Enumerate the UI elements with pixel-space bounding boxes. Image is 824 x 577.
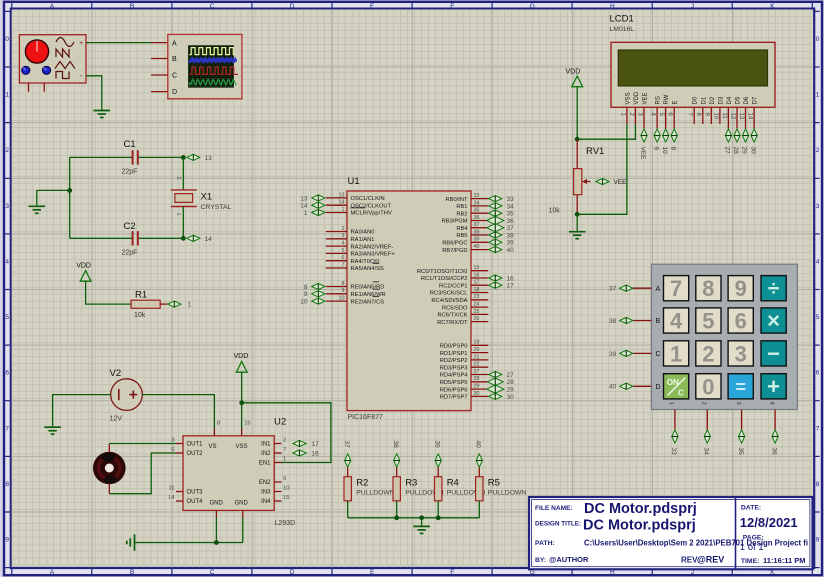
U1 pin 29 RD6/PSP6 [440, 384, 489, 394]
U1 pin 40 RB7/PGD [442, 244, 488, 254]
svg-text:8: 8 [217, 421, 220, 427]
svg-text:RC1/T1OSI/CCP2: RC1/T1OSI/CCP2 [421, 276, 468, 282]
terminal 1 [168, 301, 181, 307]
svg-text:RB4: RB4 [456, 226, 468, 232]
svg-text:EN2: EN2 [259, 480, 271, 486]
svg-text:D: D [290, 569, 295, 576]
svg-text:7: 7 [5, 425, 9, 432]
svg-text:C: C [210, 569, 215, 576]
U1 pin 26 RC7/RX/DT [437, 316, 488, 326]
svg-text:C: C [678, 389, 684, 398]
LCD pin 10 D3 [712, 96, 724, 124]
svg-text:6: 6 [816, 370, 820, 377]
U1 pin 36 RB3/PGM [442, 215, 489, 225]
keypad button + [761, 374, 786, 399]
terminal 16 [293, 450, 319, 458]
ground [413, 518, 430, 534]
terminal 9 [304, 291, 325, 299]
svg-text:GND: GND [235, 501, 249, 507]
U1 pin 5 RA3/AN3/VREF+ [326, 248, 396, 258]
terminal 16 [489, 275, 514, 283]
svg-text:RV1: RV1 [586, 146, 604, 157]
svg-text:6: 6 [171, 447, 174, 453]
terminal 36 [487, 216, 514, 224]
keypad panel [652, 264, 798, 409]
svg-text:D: D [172, 89, 177, 96]
U1 pin 39 RB6/PGC [442, 237, 488, 247]
node junction [575, 137, 580, 142]
svg-text:38: 38 [609, 318, 617, 325]
U2 pin 6 OUT2 [171, 447, 203, 457]
keypad button 9 [728, 276, 753, 302]
LCD pin 1 VSS [619, 92, 631, 124]
svg-text:10: 10 [661, 147, 668, 155]
svg-text:2: 2 [701, 402, 707, 405]
terminal 37 [487, 224, 514, 232]
U1 pin 21 RD2/PSP2 [440, 354, 489, 364]
svg-text:4: 4 [816, 258, 820, 265]
U1 pin 20 RD1/PSP1 [440, 347, 489, 357]
svg-text:VDD: VDD [566, 69, 581, 76]
ground [29, 190, 46, 213]
wire [633, 320, 651, 322]
svg-text:29: 29 [741, 147, 748, 155]
terminal VEE [596, 178, 627, 186]
svg-text:RD1/PSP1: RD1/PSP1 [440, 351, 468, 357]
svg-text:×: × [767, 308, 780, 333]
terminal 27 [724, 124, 732, 154]
svg-text:RC4/SDI/SDA: RC4/SDI/SDA [431, 298, 467, 304]
wire [139, 156, 184, 158]
svg-text:10k: 10k [134, 312, 146, 319]
terminal 30 [489, 393, 514, 401]
svg-text:EN1: EN1 [259, 461, 271, 467]
svg-text:DC Motor.pdsprj: DC Motor.pdsprj [584, 501, 697, 517]
svg-text:11:16:11 PM: 11:16:11 PM [763, 556, 806, 565]
svg-text:16: 16 [474, 272, 480, 278]
wire [241, 403, 243, 429]
wire [70, 156, 132, 158]
LCD pin 3 VEE [636, 92, 648, 124]
svg-text:40: 40 [474, 244, 480, 250]
terminal 38 [392, 441, 400, 468]
svg-text:A: A [656, 286, 661, 293]
svg-text:14: 14 [339, 200, 345, 206]
svg-text:1: 1 [283, 457, 286, 463]
svg-text:RD4/PSP4: RD4/PSP4 [440, 373, 469, 379]
svg-text:C: C [210, 3, 215, 10]
power VDD [234, 353, 249, 372]
svg-text:VDD: VDD [76, 263, 91, 270]
svg-text:1: 1 [670, 341, 682, 366]
svg-text:OSC1/CLKIN: OSC1/CLKIN [351, 196, 385, 202]
svg-text:RC5/SDO: RC5/SDO [442, 305, 468, 311]
wire [142, 395, 214, 429]
wire LCD VSS to ground rail [577, 124, 627, 214]
svg-text:25: 25 [474, 309, 480, 315]
svg-text:BY:: BY: [535, 557, 546, 564]
svg-text:19: 19 [474, 340, 480, 346]
U2 pin 16 VSS stub [241, 429, 243, 436]
svg-text:2: 2 [702, 341, 714, 366]
svg-text:28: 28 [474, 376, 480, 382]
terminal 10 [300, 298, 325, 306]
svg-text:1: 1 [304, 210, 308, 217]
terminal 37 [343, 441, 351, 468]
node junction [419, 515, 424, 520]
terminal 27 [489, 371, 514, 379]
svg-text:PATH:: PATH: [535, 540, 555, 547]
svg-text:34: 34 [507, 203, 515, 210]
keypad button 7 [664, 276, 689, 302]
svg-text:RE0/AN5/RD: RE0/AN5/RD [351, 285, 385, 291]
svg-text:B: B [130, 3, 134, 10]
wire [576, 214, 578, 229]
keypad button 4 [664, 308, 689, 334]
power VDD [76, 263, 91, 282]
U1 pin 34 RB1 [456, 200, 488, 210]
svg-text:RE2/AN7/CS: RE2/AN7/CS [351, 299, 385, 305]
svg-text:÷: ÷ [768, 278, 780, 301]
wire VDD to EN1 [242, 403, 331, 463]
svg-text:RD6/PSP6: RD6/PSP6 [440, 387, 468, 393]
svg-text:A: A [50, 569, 55, 576]
svg-text:R2: R2 [356, 478, 368, 489]
keypad button 5 [696, 308, 721, 334]
svg-text:VDD: VDD [634, 91, 640, 104]
svg-text:8: 8 [5, 481, 9, 488]
svg-text:E: E [370, 3, 375, 10]
svg-text:D: D [656, 384, 661, 391]
svg-text:16: 16 [507, 275, 515, 282]
wire [242, 518, 244, 543]
svg-text:RE1/AN6/WR: RE1/AN6/WR [351, 292, 386, 298]
svg-text:5: 5 [816, 314, 820, 321]
svg-text:B: B [656, 318, 661, 325]
terminal 37 [609, 285, 633, 293]
svg-text:OSC2/CLKOUT: OSC2/CLKOUT [351, 203, 392, 209]
svg-text:11: 11 [168, 486, 174, 492]
svg-text:23: 23 [474, 294, 480, 300]
svg-text:14: 14 [747, 113, 753, 120]
svg-text:@REV: @REV [697, 555, 724, 565]
svg-text:VDD: VDD [234, 353, 249, 360]
svg-text:2: 2 [5, 147, 9, 154]
U1 pin 4 RA2/AN2/VREF- [326, 241, 394, 251]
svg-text:RC2/CCP1: RC2/CCP1 [439, 283, 467, 289]
keypad button &#247; [761, 276, 786, 301]
keypad button = [728, 374, 753, 399]
node junction [575, 212, 580, 217]
svg-text:GND: GND [210, 501, 224, 507]
terminal 28 [487, 378, 514, 386]
terminal 40 [609, 383, 633, 391]
svg-text:0: 0 [816, 36, 820, 43]
oscilloscope instrument [168, 34, 242, 98]
svg-text:@AUTHOR: @AUTHOR [549, 555, 589, 564]
svg-text:J: J [691, 3, 694, 10]
ground [44, 420, 61, 435]
svg-text:13: 13 [300, 195, 308, 202]
svg-text:ON: ON [667, 378, 679, 387]
wire [135, 542, 243, 544]
svg-text:FILE NAME:: FILE NAME: [535, 505, 573, 512]
svg-text:35: 35 [737, 448, 744, 456]
svg-text:30: 30 [507, 394, 515, 401]
wire [182, 157, 184, 190]
resistor R1 [131, 290, 160, 320]
svg-text:15: 15 [474, 265, 480, 271]
node junction [181, 155, 186, 160]
crystal X1 [171, 177, 232, 216]
svg-text:RB2: RB2 [456, 211, 467, 217]
svg-text:B: B [130, 569, 134, 576]
svg-text:1 of 1: 1 of 1 [740, 542, 764, 553]
U2 GND stub [242, 510, 244, 517]
svg-text:G: G [530, 3, 535, 10]
svg-text:CRYSTAL: CRYSTAL [201, 204, 232, 211]
keypad button 2 [696, 341, 721, 367]
wire [633, 287, 651, 289]
keypad button 8 [696, 276, 721, 302]
svg-text:C: C [656, 351, 661, 358]
U1 pin 19 RD0/PSP0 [440, 340, 489, 350]
svg-text:1: 1 [816, 92, 820, 99]
svg-text:A: A [172, 40, 177, 47]
LCD pin 12 D5 [729, 96, 741, 124]
svg-text:OUT4: OUT4 [187, 499, 204, 505]
ground [127, 534, 135, 551]
wire [348, 517, 480, 519]
svg-text:RS: RS [656, 96, 662, 104]
svg-text:40: 40 [609, 384, 617, 391]
svg-text:B: B [172, 56, 177, 63]
svg-text:VSS: VSS [236, 444, 248, 450]
svg-text:8: 8 [702, 276, 714, 301]
svg-text:LCD1: LCD1 [610, 14, 634, 25]
svg-text:F: F [450, 569, 454, 576]
terminal 1 [304, 209, 325, 217]
svg-text:RW: RW [664, 94, 670, 104]
svg-text:D0: D0 [693, 96, 699, 104]
U1 pin 7 RA5/AN4/SS [326, 262, 384, 272]
U1 pin 17 RC2/CCP1 [439, 280, 488, 290]
svg-text:9: 9 [652, 147, 659, 151]
LCD pin 6 E [667, 100, 679, 124]
ground [94, 108, 111, 118]
svg-text:RB3/PGM: RB3/PGM [442, 219, 468, 225]
svg-text:D: D [290, 3, 295, 10]
svg-text:7: 7 [342, 262, 345, 268]
U1 pin 9 RE1/AN6/WR [326, 288, 386, 298]
svg-text:TIME:: TIME: [741, 558, 760, 565]
svg-text:R5: R5 [488, 478, 500, 489]
svg-text:F: F [450, 3, 454, 10]
svg-text:OUT3: OUT3 [187, 490, 204, 496]
svg-text:R4: R4 [447, 478, 459, 489]
svg-text:RC7/RX/DT: RC7/RX/DT [437, 320, 468, 326]
svg-text:9: 9 [5, 537, 9, 544]
svg-text:13: 13 [205, 155, 213, 162]
terminal 29 [741, 124, 749, 154]
svg-text:4: 4 [342, 241, 345, 247]
svg-text:OUT1: OUT1 [187, 442, 204, 448]
svg-text:LM016L: LM016L [610, 26, 635, 33]
U1 pin 6 RA4/T0CKI [326, 255, 380, 265]
wire [70, 237, 132, 239]
svg-text:37: 37 [507, 225, 515, 232]
svg-text:VEE: VEE [639, 147, 646, 161]
U1 pin 27 RD4/PSP4 [440, 369, 489, 379]
U2 pin 8 VS stub [213, 429, 215, 436]
svg-text:21: 21 [474, 354, 480, 360]
svg-text:13: 13 [738, 113, 744, 120]
svg-text:9: 9 [283, 476, 286, 482]
svg-text:5: 5 [702, 309, 714, 334]
U2 pin 7 IN2 [261, 447, 286, 457]
ground [569, 230, 586, 239]
svg-text:17: 17 [507, 283, 515, 290]
svg-text:RB0/INT: RB0/INT [445, 197, 468, 203]
svg-text:24: 24 [474, 302, 480, 308]
svg-text:RD5/PSP5: RD5/PSP5 [440, 380, 468, 386]
wire [53, 395, 111, 420]
terminal 34 [703, 430, 711, 455]
svg-text:34: 34 [474, 200, 480, 206]
wire [576, 195, 578, 215]
terminal 9 [652, 124, 660, 151]
U1 pin 18 RC3/SCK/SCL [430, 287, 489, 297]
terminal 33 [489, 196, 514, 204]
svg-text:9: 9 [816, 537, 820, 544]
svg-text:8: 8 [669, 147, 676, 151]
svg-text:10: 10 [300, 299, 308, 306]
terminal 35 [489, 210, 514, 218]
terminal 35 [737, 430, 745, 455]
LCD pin 8 D1 [695, 96, 707, 124]
svg-text:10k: 10k [549, 208, 561, 215]
terminal 39 [489, 239, 514, 247]
svg-text:RC6/TX/CK: RC6/TX/CK [437, 313, 467, 319]
svg-text:30: 30 [749, 147, 756, 155]
wire [241, 372, 243, 403]
terminal 28 [732, 124, 740, 154]
U1 pin 33 RB0/INT [445, 193, 488, 203]
svg-text:12: 12 [729, 113, 735, 120]
terminal 40 [475, 441, 483, 468]
U1 pin 16 RC1/T1OSI/CCP2 [421, 272, 488, 282]
svg-text:35: 35 [474, 208, 480, 214]
svg-text:VSS: VSS [625, 92, 631, 104]
U1 pin 8 RE0/AN5/RD [326, 281, 385, 291]
wire [215, 518, 217, 543]
LCD pin 9 D2 [704, 96, 716, 124]
svg-text:3: 3 [342, 233, 345, 239]
LCD LCD1 LM016L [610, 14, 776, 108]
svg-text:V2: V2 [110, 368, 122, 379]
svg-text:4: 4 [5, 258, 9, 265]
U1 pin 24 RC5/SDO [442, 302, 488, 312]
svg-text:RA0/AN0: RA0/AN0 [351, 230, 375, 236]
svg-text:37: 37 [609, 286, 617, 293]
svg-text:12V: 12V [110, 416, 123, 423]
svg-text:14: 14 [168, 495, 175, 501]
svg-text:9: 9 [735, 276, 747, 301]
svg-text:20: 20 [474, 347, 480, 353]
svg-text:22: 22 [474, 362, 480, 368]
wire LCD VDD to VDD rail [577, 124, 635, 139]
U2 pin 14 OUT4 [168, 495, 203, 505]
svg-text:1: 1 [342, 207, 345, 213]
svg-text:+: + [79, 40, 83, 47]
wire [86, 281, 132, 304]
svg-text:15: 15 [283, 495, 289, 501]
svg-text:16: 16 [312, 450, 320, 457]
svg-text:1: 1 [188, 302, 192, 309]
U1 pin 30 RD7/PSP7 [440, 391, 489, 401]
wire [576, 87, 578, 140]
svg-text:10: 10 [712, 113, 718, 120]
keypad button 3 [728, 341, 753, 367]
svg-text:34: 34 [703, 448, 710, 456]
U1 pin 37 RB4 [456, 222, 488, 232]
svg-text:7: 7 [816, 425, 820, 432]
svg-text:MCLR/Vpp/THV: MCLR/Vpp/THV [351, 211, 392, 217]
svg-text:VS: VS [209, 444, 217, 450]
svg-text:0: 0 [5, 36, 9, 43]
svg-text:39: 39 [474, 237, 480, 243]
svg-text:14: 14 [205, 236, 213, 243]
U2 pin 10 IN3 [261, 486, 289, 496]
svg-text:+: + [767, 374, 780, 399]
LCD pin 5 RW [658, 94, 670, 124]
svg-text:RA1/AN1: RA1/AN1 [351, 237, 375, 243]
svg-text:=: = [735, 377, 746, 397]
svg-text:RC0/T1OSO/T1CKI: RC0/T1OSO/T1CKI [417, 269, 468, 275]
svg-text:R3: R3 [405, 478, 417, 489]
LCD pin 11 D4 [721, 96, 733, 124]
svg-text:8: 8 [342, 281, 345, 287]
scope pin B stub [151, 58, 168, 60]
node junction [67, 188, 72, 193]
svg-text:E: E [673, 100, 679, 104]
svg-text:−: − [767, 341, 780, 366]
svg-text:OUT2: OUT2 [187, 451, 204, 457]
svg-text:3: 3 [5, 203, 9, 210]
svg-text:30: 30 [474, 391, 480, 397]
svg-text:38: 38 [507, 232, 515, 239]
U1 pin 35 RB2 [456, 208, 488, 218]
svg-text:39: 39 [609, 351, 617, 358]
svg-text:IN4: IN4 [261, 499, 271, 505]
keypad button 6 [728, 308, 753, 334]
svg-text:K: K [770, 3, 775, 10]
R1 pin stub [160, 303, 167, 305]
svg-text:36: 36 [474, 215, 480, 221]
U2 pin 2 IN1 [261, 438, 286, 448]
svg-text:3: 3 [816, 203, 820, 210]
U1 pin 14 OSC2/CLKOUT [326, 200, 392, 210]
LCD pin 2 VDD [628, 91, 640, 124]
terminal 39 [609, 350, 633, 358]
wire [706, 410, 708, 430]
svg-text:PIC16F877: PIC16F877 [348, 414, 384, 421]
U1 pin 10 RE2/AN7/CS [326, 296, 384, 306]
U2 GND stub [215, 510, 217, 517]
U2 pin 1 EN1 [259, 457, 286, 467]
U1 pin 28 RD5/PSP5 [440, 376, 489, 386]
svg-text:RA4/T0CKI: RA4/T0CKI [351, 259, 380, 265]
